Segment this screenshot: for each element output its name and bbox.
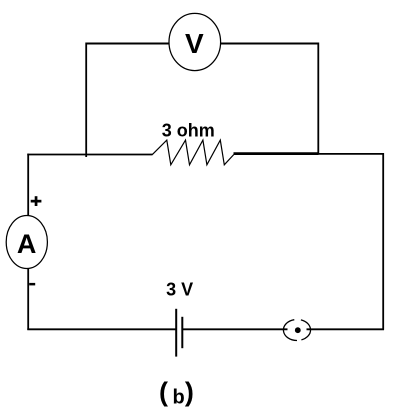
battery 3 V: [176, 309, 182, 357]
svg-text:b: b: [172, 387, 184, 409]
svg-text:(: (: [159, 377, 168, 407]
plug key K: [283, 320, 310, 341]
wire: voltmeter branch top-right horizontal: [220, 43, 319, 45]
wire: voltmeter branch top-left horizontal: [86, 43, 171, 45]
wire: voltmeter branch right vertical: [317, 43, 319, 155]
resistor R1 3 ohm: [152, 140, 233, 165]
label - (ammeter negative): [29, 283, 35, 286]
svg-text:3 V: 3 V: [166, 279, 193, 299]
label + (ammeter positive): [31, 196, 42, 206]
svg-text:): ): [185, 377, 194, 407]
wire: voltmeter branch left vertical: [85, 43, 87, 158]
wire: bottom middle horizontal: [182, 328, 287, 330]
wire: bottom left horizontal: [27, 328, 176, 330]
wire: resistor to right junction (thick): [234, 152, 319, 155]
wire: resistor branch left horizontal: [27, 154, 152, 156]
wire: right vertical: [382, 153, 384, 330]
wire: left vertical lower: [27, 266, 29, 330]
svg-text:V: V: [185, 28, 204, 59]
wire: junction to top-right corner: [317, 153, 384, 155]
svg-text:A: A: [17, 229, 37, 259]
voltmeter V: [169, 13, 221, 70]
svg-text:3 ohm: 3 ohm: [162, 120, 215, 140]
wire: bottom right horizontal: [307, 328, 385, 330]
ammeter A: [6, 216, 47, 269]
wire: left vertical upper: [27, 154, 29, 219]
label (b): [159, 377, 194, 409]
